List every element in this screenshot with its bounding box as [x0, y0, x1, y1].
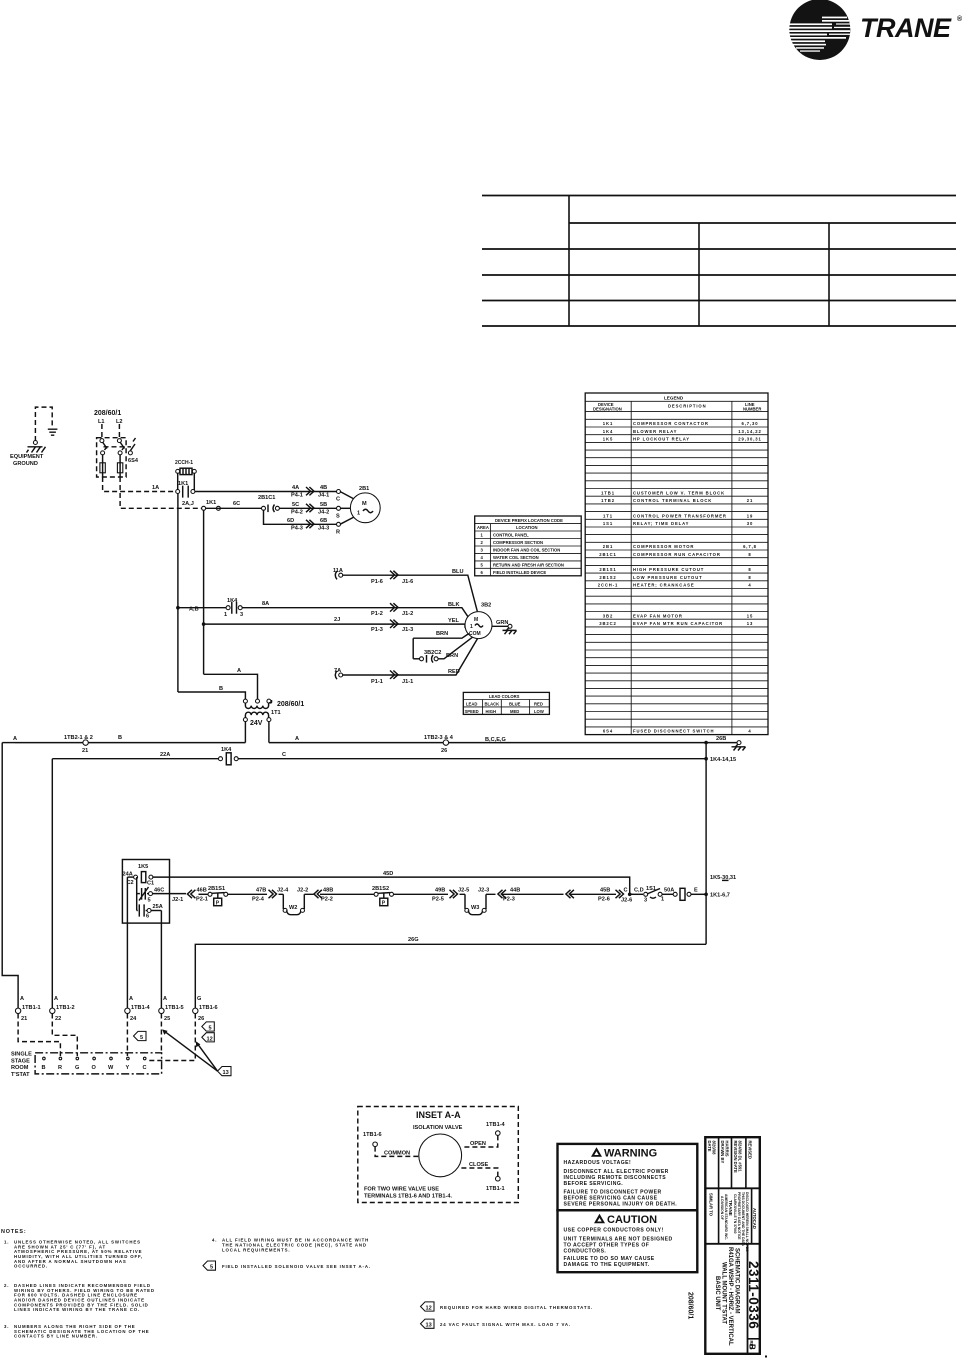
wire 2A,J [120, 477, 202, 508]
svg-text:J2-1: J2-1 [172, 897, 183, 903]
svg-text:B: B [118, 735, 122, 741]
connector 48B P2-2 [297, 888, 374, 903]
svg-text:1S1: 1S1 [603, 521, 613, 526]
contact 1K4 line 13 [176, 598, 243, 618]
wire 22A / relay coil 1K4 [52, 747, 708, 765]
svg-text:BLACK: BLACK [485, 701, 500, 706]
connector 47B P2-4 [250, 888, 289, 903]
svg-text:22: 22 [55, 1016, 61, 1022]
svg-text:1K1: 1K1 [206, 500, 216, 506]
svg-text:J2-6: J2-6 [621, 898, 632, 904]
svg-text:1TB1-2: 1TB1-2 [56, 1005, 75, 1011]
inset A-A box [358, 1107, 519, 1203]
svg-text:11A: 11A [333, 568, 343, 574]
1K5 lockout relay box [122, 860, 169, 924]
svg-text:NOTES:: NOTES: [1, 1229, 26, 1235]
svg-text:DESIGNATION: DESIGNATION [593, 407, 622, 412]
svg-text:2A,J: 2A,J [182, 501, 194, 507]
svg-text:INSET A-A: INSET A-A [416, 1110, 461, 1120]
svg-text:COMPRESSOR SECTION: COMPRESSOR SECTION [493, 540, 543, 545]
connector 49B P2-5 [431, 888, 469, 903]
svg-text:2B1S2: 2B1S2 [372, 886, 389, 892]
svg-text:PROPRIETARY DATA NOTICE: PROPRIETARY DATA NOTICE [737, 1192, 741, 1240]
svg-text:CAUTION: CAUTION [607, 1214, 657, 1226]
svg-text:1TB1: 1TB1 [601, 490, 615, 495]
svg-text:1K1-6,7: 1K1-6,7 [710, 893, 730, 899]
svg-text:LOW: LOW [534, 709, 544, 714]
svg-text:3.: 3. [4, 1324, 9, 1329]
wire 7A RED [334, 639, 478, 685]
svg-text:B: B [748, 1344, 757, 1350]
svg-text:WALL MOUNT T'STAT: WALL MOUNT T'STAT [721, 1262, 727, 1324]
svg-text:BLOWER RELAY: BLOWER RELAY [633, 429, 677, 434]
svg-text:13: 13 [223, 1070, 229, 1076]
svg-text:1.: 1. [4, 1239, 9, 1244]
svg-text:6D: 6D [287, 518, 294, 524]
svg-text:P2-3: P2-3 [503, 897, 515, 903]
svg-text:LEGEND: LEGEND [664, 396, 684, 401]
svg-text:P2-4: P2-4 [252, 897, 265, 903]
flag 13 with arrows [162, 1029, 231, 1076]
svg-text:SCHEMATIC DIAGRAM: SCHEMATIC DIAGRAM [734, 1248, 740, 1314]
wire 45D [170, 871, 630, 894]
terminal 1TB1-2 [50, 996, 75, 1022]
svg-text:15: 15 [747, 613, 753, 618]
svg-text:C1: C1 [147, 881, 154, 887]
svg-text:21: 21 [21, 1016, 27, 1022]
field wire 1TB1-4 to Y [126, 1014, 128, 1057]
svg-text:AMERICAN STANDARD INC.: AMERICAN STANDARD INC. [724, 1194, 728, 1240]
svg-text:E: E [694, 888, 698, 894]
svg-text:HIGH PRESSURE CUTOUT: HIGH PRESSURE CUTOUT [633, 567, 704, 572]
svg-text:3B2: 3B2 [481, 603, 491, 609]
svg-text:2J: 2J [334, 617, 340, 623]
svg-text:FIELD INSTALLED DEVICE: FIELD INSTALLED DEVICE [493, 570, 546, 575]
svg-text:6C: 6C [233, 501, 240, 507]
svg-text:C,D: C,D [634, 888, 644, 894]
svg-text:EVAP FAN MTR RUN CAPACITOR: EVAP FAN MTR RUN CAPACITOR [633, 621, 723, 626]
svg-text:BASIC UNIT: BASIC UNIT [714, 1276, 720, 1311]
svg-text:COM: COM [469, 631, 481, 637]
flag 5 (Y wire) [134, 1031, 147, 1041]
svg-text:5: 5 [209, 1026, 212, 1032]
svg-text:1TB1-6: 1TB1-6 [199, 1005, 218, 1011]
svg-text:INDOOR FAN AND COIL SECTION: INDOOR FAN AND COIL SECTION [493, 548, 560, 553]
svg-text:1A: 1A [152, 485, 159, 491]
svg-text:8A: 8A [262, 601, 269, 607]
svg-text:STAGE: STAGE [11, 1058, 30, 1064]
svg-text:BLK: BLK [448, 602, 460, 608]
svg-text:208/60/1: 208/60/1 [277, 701, 304, 708]
svg-text:1TB1-6: 1TB1-6 [363, 1132, 382, 1138]
svg-text:1TB1-1: 1TB1-1 [486, 1186, 505, 1192]
svg-text:1T1: 1T1 [271, 710, 281, 716]
svg-text:24 VAC FAULT SIGNAL WITH MAX.: 24 VAC FAULT SIGNAL WITH MAX. LOAD 7 VA. [440, 1322, 571, 1327]
svg-text:J4-3: J4-3 [318, 525, 329, 531]
device prefix location code table [475, 516, 582, 576]
wire A to transformer [204, 668, 258, 700]
svg-text:BLUE: BLUE [509, 701, 521, 706]
svg-text:J1-3: J1-3 [402, 627, 413, 633]
vertical bus B (x=177.9) [177, 493, 179, 692]
svg-text:48B: 48B [323, 888, 333, 894]
terminal 1TB1-6 [193, 996, 218, 1022]
svg-text:5: 5 [210, 1265, 213, 1271]
connector 44B P2-3 [478, 888, 564, 903]
evap fan motor 3B2 [465, 603, 492, 639]
relay coil 1K1 [673, 888, 708, 901]
svg-text:J4-1: J4-1 [318, 493, 329, 499]
svg-text:R41GA WSHP - HORIZ - VERTICAL: R41GA WSHP - HORIZ - VERTICAL [727, 1247, 733, 1346]
svg-text:1TB2-1 & 2: 1TB2-1 & 2 [64, 735, 93, 741]
svg-text:ISOLATION VALVE: ISOLATION VALVE [413, 1125, 463, 1131]
svg-text:4.: 4. [212, 1238, 217, 1243]
wire 8A BLK [242, 601, 468, 617]
field wire 1TB1-5 to t'stat [160, 1014, 162, 1053]
svg-text:30: 30 [747, 521, 753, 526]
svg-text:TRANE: TRANE [728, 1200, 733, 1216]
svg-text:P2-2: P2-2 [321, 897, 333, 903]
capacitor 3B2C2 [413, 637, 472, 662]
svg-text:P1-3: P1-3 [371, 627, 383, 633]
svg-text:FOR TWO WIRE VALVE USE: FOR TWO WIRE VALVE USE [364, 1187, 439, 1193]
capacitor 2B1C1 [258, 495, 337, 512]
svg-text:A: A [13, 736, 17, 742]
svg-text:6: 6 [146, 914, 149, 920]
svg-text:TERMINALS 1TB1-6 AND 1TB1-4.: TERMINALS 1TB1-6 AND 1TB1-4. [364, 1194, 453, 1200]
svg-text:OPEN: OPEN [470, 1141, 486, 1147]
svg-text:DATE: DATE [707, 1141, 712, 1152]
svg-text:A: A [295, 736, 299, 742]
svg-text:2B1: 2B1 [359, 486, 369, 492]
svg-text:1: 1 [470, 624, 473, 630]
svg-text:REVISION DATE: REVISION DATE [733, 1141, 738, 1173]
svg-text:26B: 26B [716, 736, 726, 742]
warning box [558, 1144, 698, 1210]
compressor motor 2B1 [350, 486, 380, 523]
isolation valve circle [419, 1134, 462, 1177]
svg-text:2B1C1: 2B1C1 [599, 552, 617, 557]
svg-text:THIS DOCUMENT AND THE DATA: THIS DOCUMENT AND THE DATA [741, 1192, 745, 1247]
svg-text:BRN: BRN [446, 653, 458, 659]
flag 5 (26 wire) [202, 1022, 215, 1032]
svg-text:J2-2: J2-2 [297, 888, 308, 894]
svg-text:45B: 45B [600, 888, 610, 894]
svg-text:TRANE: TRANE [860, 13, 952, 43]
svg-text:5B: 5B [320, 502, 327, 508]
svg-text:1K5: 1K5 [603, 437, 613, 442]
svg-text:26: 26 [198, 1016, 204, 1022]
svg-text:8: 8 [748, 575, 751, 580]
svg-text:26: 26 [441, 748, 447, 754]
svg-text:O: O [92, 1065, 97, 1071]
wire B to transformer [178, 686, 246, 700]
svg-text:A: A [237, 668, 241, 674]
title block [705, 1137, 761, 1354]
wire 1A [103, 477, 176, 492]
svg-text:R: R [336, 529, 340, 535]
terminal 1TB1-5 [159, 996, 184, 1022]
svg-text:1K4: 1K4 [603, 429, 613, 434]
svg-text:CLARKSVILLE TN 37040: CLARKSVILLE TN 37040 [733, 1194, 737, 1234]
node L1 L2 208/60/1 supply [94, 410, 123, 439]
svg-text:Y: Y [126, 1065, 130, 1071]
svg-text:BRN: BRN [436, 631, 448, 637]
svg-text:WARNING: WARNING [604, 1148, 657, 1160]
svg-text:HAZARDOUS VOLTAGE!: HAZARDOUS VOLTAGE! [564, 1160, 632, 1166]
svg-text:J1-2: J1-2 [402, 611, 413, 617]
svg-text:J1-6: J1-6 [402, 579, 413, 585]
svg-text:24: 24 [130, 1016, 137, 1022]
svg-text:C: C [624, 888, 628, 894]
svg-text:3: 3 [644, 898, 647, 904]
svg-text:RETURN AND FRESH AIR SECTION: RETURN AND FRESH AIR SECTION [493, 563, 564, 568]
svg-text:1K1: 1K1 [603, 421, 613, 426]
svg-text:50A: 50A [664, 888, 674, 894]
svg-text:5: 5 [140, 1035, 143, 1041]
svg-text:3: 3 [240, 612, 243, 618]
node 26B + chassis ground [704, 736, 745, 751]
svg-text:LOCATION: LOCATION [516, 525, 538, 530]
svg-text:3B2: 3B2 [603, 613, 613, 618]
notes [1, 1229, 369, 1339]
svg-text:DESCRIPTION: DESCRIPTION [668, 404, 707, 409]
svg-text:CONTROL TERMINAL BLOCK: CONTROL TERMINAL BLOCK [633, 498, 712, 503]
svg-text:FIELD INSTALLED SOLENOID VALVE: FIELD INSTALLED SOLENOID VALVE SEE INSET… [222, 1264, 371, 1269]
svg-text:B: B [219, 686, 223, 692]
svg-text:SEVERE PERSONAL INJURY OR DEAT: SEVERE PERSONAL INJURY OR DEATH. [564, 1201, 678, 1207]
svg-text:45D: 45D [383, 871, 393, 877]
svg-text:®: ® [957, 15, 963, 23]
svg-text:J1-1: J1-1 [402, 679, 413, 685]
wire 11A BLU [333, 568, 477, 611]
svg-text:6,7,30: 6,7,30 [741, 421, 758, 426]
svg-text:5: 5 [148, 898, 151, 904]
main control rung line 30 [170, 888, 209, 904]
svg-text:25: 25 [164, 1016, 170, 1022]
svg-text:GRN: GRN [496, 620, 508, 626]
svg-text:A: A [129, 996, 133, 1002]
svg-text:J2-4: J2-4 [277, 888, 289, 894]
main 24V rung left: wire A to 1TB2-1 [2, 735, 245, 754]
svg-text:J2-3: J2-3 [478, 888, 489, 894]
svg-text:1TB1-4: 1TB1-4 [486, 1122, 506, 1128]
svg-text:1: 1 [661, 897, 664, 903]
svg-text:2B1: 2B1 [603, 544, 613, 549]
svg-text:A,B: A,B [189, 607, 199, 613]
svg-text:AUTOCAD: AUTOCAD [752, 1208, 757, 1229]
revision table (empty) [482, 196, 956, 327]
svg-text:4A: 4A [292, 485, 299, 491]
svg-text:HP LOCKOUT RELAY: HP LOCKOUT RELAY [633, 437, 690, 442]
svg-text:46C: 46C [154, 888, 164, 894]
svg-text:2CCH-1: 2CCH-1 [598, 583, 619, 588]
svg-text:49B: 49B [435, 888, 445, 894]
svg-text:6S4: 6S4 [128, 458, 139, 464]
svg-text:REQUIRED FOR HARD WIRED DIGITA: REQUIRED FOR HARD WIRED DIGITAL THERMOST… [440, 1305, 593, 1310]
svg-text:2B1S2: 2B1S2 [599, 575, 616, 580]
svg-text:BLU: BLU [452, 569, 464, 575]
svg-text:1K4-14,15: 1K4-14,15 [710, 757, 736, 763]
svg-text:1TB1-4: 1TB1-4 [131, 1005, 151, 1011]
svg-text:J4-2: J4-2 [318, 509, 329, 515]
single stage room t'stat box [11, 1052, 162, 1078]
svg-text:LOCAL REQUIREMENTS.: LOCAL REQUIREMENTS. [222, 1247, 290, 1252]
wire 1K1 terminals line 7 [202, 500, 262, 510]
left bus down to 1TB1-1 [2, 743, 18, 1008]
svg-text:1T1: 1T1 [603, 513, 613, 518]
svg-text:REVISED: REVISED [748, 1141, 753, 1159]
svg-text:6S4: 6S4 [603, 729, 613, 734]
high pressure cutout 2B1S1 [208, 886, 250, 907]
svg-text:R: R [58, 1065, 62, 1071]
svg-text:B: B [42, 1065, 46, 1071]
wire 26G [195, 937, 706, 1008]
svg-text:6,7,8: 6,7,8 [743, 544, 757, 549]
svg-text:HEATER; CRANKCASE: HEATER; CRANKCASE [633, 583, 695, 588]
flag 12 [202, 1033, 215, 1043]
svg-text:A: A [54, 996, 58, 1002]
svg-text:W3: W3 [471, 905, 479, 911]
svg-text:CUSTOMER LOW V. TERM BLOCK: CUSTOMER LOW V. TERM BLOCK [633, 490, 725, 495]
node C / wire to motor [336, 490, 355, 503]
svg-text:1TB2: 1TB2 [601, 498, 615, 503]
svg-text:22A: 22A [160, 752, 170, 758]
connector 45B P2-6 [566, 888, 644, 904]
svg-text:EQUIPMENT: EQUIPMENT [10, 454, 44, 460]
flag note 5 [203, 1261, 371, 1271]
field wire 1TB1-2 to G [52, 1014, 77, 1057]
svg-text:HARRIS: HARRIS [725, 1141, 730, 1157]
svg-text:1K5: 1K5 [138, 864, 148, 870]
svg-text:COMPRESSOR MOTOR: COMPRESSOR MOTOR [633, 544, 694, 549]
svg-text:M: M [362, 501, 367, 507]
svg-text:DAMAGE TO THE EQUIPMENT.: DAMAGE TO THE EQUIPMENT. [564, 1262, 650, 1268]
svg-text:29,30,31: 29,30,31 [738, 437, 762, 442]
svg-text:C: C [336, 497, 340, 503]
vertical bus A (x=203.6) [203, 510, 205, 674]
heater crankcase 2CCH-1 [175, 460, 196, 490]
svg-text:RED: RED [448, 669, 460, 675]
plug W2 [283, 894, 304, 914]
svg-text:RED: RED [534, 701, 543, 706]
svg-text:C: C [143, 1065, 147, 1071]
svg-text:MED: MED [510, 709, 519, 714]
svg-text:SINGLE: SINGLE [11, 1052, 32, 1058]
wire 4A to connector P4-1/J4-1 [195, 485, 338, 499]
caution box [558, 1210, 698, 1272]
plug W3 [465, 894, 486, 914]
svg-text:S: S [336, 513, 340, 519]
svg-text:P1-6: P1-6 [371, 579, 383, 585]
svg-text:13: 13 [747, 621, 753, 626]
svg-text:12: 12 [207, 1036, 213, 1042]
svg-text:12: 12 [426, 1306, 432, 1312]
svg-text:21: 21 [82, 748, 88, 754]
svg-text:WATER COIL SECTION: WATER COIL SECTION [493, 555, 539, 560]
svg-text:J2-5: J2-5 [458, 888, 469, 894]
fused disconnect switch 6S4 [97, 438, 139, 477]
svg-text:CONTROL POWER TRANSFORMER: CONTROL POWER TRANSFORMER [633, 513, 727, 518]
svg-text:P4-1: P4-1 [291, 493, 303, 499]
svg-text:25A: 25A [153, 904, 163, 910]
svg-text:2B1S1: 2B1S1 [208, 886, 225, 892]
contact 1K1 (line 6) [176, 481, 195, 498]
svg-text:26G: 26G [408, 937, 419, 943]
svg-text:1TB1-5: 1TB1-5 [165, 1005, 184, 1011]
svg-text:P1-2: P1-2 [371, 611, 383, 617]
svg-text:P2-1: P2-1 [196, 897, 208, 903]
svg-text:LINES INDICATE WIRING BY THE T: LINES INDICATE WIRING BY THE TRANE CO. [14, 1307, 140, 1312]
svg-text:P4-3: P4-3 [291, 525, 303, 531]
svg-text:13: 13 [426, 1323, 432, 1329]
svg-text:P4-2: P4-2 [291, 509, 303, 515]
buses to 1TB1-4 / 1TB1-5 [126, 923, 128, 1008]
svg-text:2B1S1: 2B1S1 [599, 567, 616, 572]
svg-text:AREA: AREA [477, 525, 489, 530]
svg-text:3B2C2: 3B2C2 [599, 621, 617, 626]
terminal 1TB1-1 [15, 996, 40, 1022]
svg-text:W2: W2 [289, 905, 297, 911]
svg-text:44B: 44B [510, 888, 520, 894]
svg-text:BEFORE SERVICING.: BEFORE SERVICING. [564, 1181, 624, 1187]
svg-text:CONTACTS BY LINE NUMBER.: CONTACTS BY LINE NUMBER. [14, 1334, 98, 1339]
svg-text:LEAD: LEAD [466, 701, 477, 706]
svg-text:4: 4 [748, 583, 751, 588]
wire 6D branch to P4-3/J4-3 [264, 510, 356, 535]
svg-text:M: M [474, 617, 478, 623]
svg-text:DEVICE PREFIX LOCATION CODE: DEVICE PREFIX LOCATION CODE [495, 518, 563, 523]
flag note 13 [421, 1319, 571, 1329]
svg-text:8: 8 [748, 567, 751, 572]
svg-text:CONTROL PANEL: CONTROL PANEL [493, 533, 529, 538]
svg-text:FUSED DISCONNECT SWITCH: FUSED DISCONNECT SWITCH [633, 729, 714, 734]
equipment ground [10, 407, 57, 467]
svg-text:C: C [282, 752, 286, 758]
lead colors table [463, 692, 549, 714]
field wire 1TB1-6 to C [148, 1014, 195, 1061]
svg-text:8/20/08: 8/20/08 [712, 1141, 717, 1156]
svg-text:24V: 24V [250, 720, 263, 727]
flag note 12 [421, 1302, 594, 1312]
svg-text:A DIVISION OF: A DIVISION OF [720, 1196, 724, 1220]
svg-text:G: G [197, 996, 201, 1002]
stray dot [765, 1356, 767, 1358]
svg-text:47B: 47B [256, 888, 266, 894]
low pressure cutout 2B1S2 [372, 886, 431, 907]
svg-text:DRAWN BY: DRAWN BY [720, 1141, 725, 1164]
wire BRN stub [413, 631, 469, 659]
svg-text:4: 4 [748, 729, 751, 734]
svg-text:2.: 2. [4, 1283, 9, 1288]
svg-text:13,14,22: 13,14,22 [738, 429, 762, 434]
svg-text:7A: 7A [334, 668, 341, 674]
svg-text:5C: 5C [292, 502, 299, 508]
svg-text:2B1C1: 2B1C1 [258, 495, 275, 501]
svg-text:NUMBER: NUMBER [743, 407, 761, 412]
svg-text:USE COPPER CONDUCTORS ONLY!: USE COPPER CONDUCTORS ONLY! [564, 1228, 664, 1234]
legend table [585, 393, 768, 735]
field wire 1TB1-1 to R [18, 1014, 60, 1057]
trane logo [788, 0, 963, 60]
svg-text:208/60/1: 208/60/1 [687, 1292, 694, 1319]
svg-text:P2-6: P2-6 [598, 897, 610, 903]
svg-text:8/24/08 DL #591: 8/24/08 DL #591 [738, 1141, 743, 1173]
svg-text:A: A [163, 996, 167, 1002]
wire 5C connector P4-2/J4-2 [291, 502, 350, 520]
svg-text:HIGH: HIGH [486, 709, 496, 714]
svg-text:1TB1-1: 1TB1-1 [22, 1005, 41, 1011]
